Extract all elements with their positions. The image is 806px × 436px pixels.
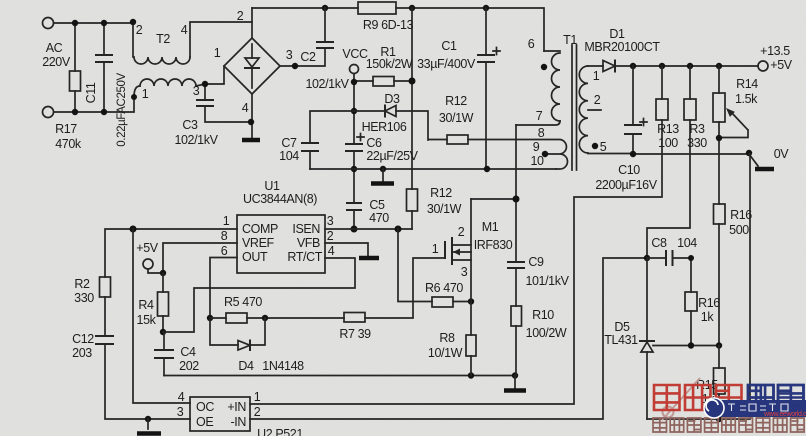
svg-text:R16: R16 xyxy=(730,208,752,222)
svg-text:220V: 220V xyxy=(42,55,71,69)
svg-text:R13: R13 xyxy=(657,122,679,136)
svg-text:1k: 1k xyxy=(701,310,715,324)
svg-text:202: 202 xyxy=(179,359,199,373)
svg-text:150k/2W: 150k/2W xyxy=(366,57,413,71)
svg-text:T1: T1 xyxy=(563,33,577,47)
svg-text:15k: 15k xyxy=(137,313,157,327)
svg-text:C2: C2 xyxy=(300,50,316,64)
svg-text:6: 6 xyxy=(528,37,535,51)
svg-text:2: 2 xyxy=(254,405,261,419)
svg-text:C8: C8 xyxy=(651,236,667,250)
svg-text:C11: C11 xyxy=(84,82,98,103)
svg-text:VFB: VFB xyxy=(297,236,320,250)
svg-text:3: 3 xyxy=(193,84,200,98)
svg-text:33µF/400V: 33µF/400V xyxy=(417,57,476,71)
svg-text:104: 104 xyxy=(279,149,299,163)
svg-text:C10: C10 xyxy=(618,163,640,177)
svg-text:1: 1 xyxy=(432,242,439,256)
svg-text:TL431: TL431 xyxy=(604,333,638,347)
svg-text:7: 7 xyxy=(536,109,543,123)
svg-text:2: 2 xyxy=(136,23,143,37)
svg-text:330: 330 xyxy=(74,291,94,305)
svg-text:470: 470 xyxy=(369,211,389,225)
svg-text:3: 3 xyxy=(461,265,468,279)
svg-text:U1: U1 xyxy=(264,179,280,193)
svg-text:R7 39: R7 39 xyxy=(339,327,371,341)
svg-text:8: 8 xyxy=(221,229,228,243)
svg-text:-IN: -IN xyxy=(231,415,247,429)
svg-text:1: 1 xyxy=(214,46,221,60)
svg-text:OC: OC xyxy=(196,400,214,414)
svg-text:D4: D4 xyxy=(238,359,254,373)
svg-text:4: 4 xyxy=(178,390,185,404)
svg-text:U2 P521: U2 P521 xyxy=(257,427,303,436)
svg-text:R12: R12 xyxy=(445,94,467,108)
svg-text:6: 6 xyxy=(221,244,228,258)
svg-text:1: 1 xyxy=(223,214,230,228)
svg-text:HER106: HER106 xyxy=(362,120,407,134)
svg-text:3: 3 xyxy=(286,48,293,62)
svg-text:500: 500 xyxy=(729,223,749,237)
svg-text:+13.5: +13.5 xyxy=(760,44,790,58)
svg-text:R5 470: R5 470 xyxy=(224,295,262,309)
svg-text:C1: C1 xyxy=(441,39,457,53)
svg-text:2: 2 xyxy=(594,93,601,107)
svg-text:101/1kV: 101/1kV xyxy=(525,274,569,288)
svg-text:R3: R3 xyxy=(689,122,705,136)
svg-text:C7: C7 xyxy=(281,136,297,150)
svg-text:0.22µFAC250V: 0.22µFAC250V xyxy=(116,73,128,147)
svg-text:2: 2 xyxy=(237,9,244,23)
svg-text:10: 10 xyxy=(530,154,544,168)
svg-text:R2: R2 xyxy=(74,277,90,291)
svg-text:5: 5 xyxy=(600,140,607,154)
svg-text:9: 9 xyxy=(533,140,540,154)
svg-text:R17: R17 xyxy=(55,122,77,136)
svg-text:C12: C12 xyxy=(72,332,94,346)
svg-text:OUT: OUT xyxy=(242,250,268,264)
svg-text:+5V: +5V xyxy=(770,58,792,72)
svg-text:8: 8 xyxy=(538,126,545,140)
svg-text:1N4148: 1N4148 xyxy=(262,359,304,373)
svg-text:VREF: VREF xyxy=(242,236,275,250)
svg-text:M1: M1 xyxy=(482,220,499,234)
svg-text:www.eeworld.com.cn: www.eeworld.com.cn xyxy=(763,411,806,418)
svg-text:2200µF16V: 2200µF16V xyxy=(595,178,657,192)
svg-text:470k: 470k xyxy=(55,137,82,151)
svg-text:2: 2 xyxy=(458,225,465,239)
svg-text:C6: C6 xyxy=(366,136,382,150)
svg-text:1.5k: 1.5k xyxy=(735,92,758,106)
svg-text:1: 1 xyxy=(142,87,149,101)
svg-text:MBR20100CT: MBR20100CT xyxy=(584,40,660,54)
svg-text:C9: C9 xyxy=(528,255,544,269)
svg-text:RT/CT: RT/CT xyxy=(287,250,322,264)
svg-text:4: 4 xyxy=(242,101,249,115)
svg-text:VCC: VCC xyxy=(342,47,368,61)
svg-text:102/1kV: 102/1kV xyxy=(174,133,218,147)
svg-text:R10: R10 xyxy=(532,308,554,322)
svg-text:D5: D5 xyxy=(614,320,630,334)
svg-text:4: 4 xyxy=(328,244,335,258)
svg-text:203: 203 xyxy=(72,346,92,360)
svg-text:R4: R4 xyxy=(138,298,154,312)
svg-text:3: 3 xyxy=(327,214,334,228)
svg-text:R8: R8 xyxy=(439,331,455,345)
svg-text:OE: OE xyxy=(196,415,213,429)
svg-text:T2: T2 xyxy=(156,32,170,46)
svg-text:1: 1 xyxy=(254,390,261,404)
svg-text:102/1kV: 102/1kV xyxy=(305,77,349,91)
svg-text:+IN: +IN xyxy=(227,400,246,414)
svg-text:D1: D1 xyxy=(609,27,625,41)
svg-text:100/2W: 100/2W xyxy=(526,326,567,340)
svg-text:4: 4 xyxy=(181,23,188,37)
svg-text:UC3844AN(8): UC3844AN(8) xyxy=(243,192,317,206)
svg-text:330: 330 xyxy=(687,136,707,150)
svg-text:C3: C3 xyxy=(182,118,198,132)
svg-text:30/1W: 30/1W xyxy=(427,202,462,216)
svg-text:D3: D3 xyxy=(384,92,400,106)
svg-text:0V: 0V xyxy=(774,147,790,161)
svg-text:10/1W: 10/1W xyxy=(428,346,463,360)
svg-text:R14: R14 xyxy=(736,77,758,91)
svg-text:3: 3 xyxy=(177,405,184,419)
svg-text:1: 1 xyxy=(593,69,600,83)
svg-text:30/1W: 30/1W xyxy=(439,111,474,125)
svg-text:+5V: +5V xyxy=(136,241,158,255)
svg-text:R16: R16 xyxy=(698,296,720,310)
svg-text:AC: AC xyxy=(46,41,63,55)
svg-text:100: 100 xyxy=(658,136,678,150)
svg-text:R9 6D-13: R9 6D-13 xyxy=(363,18,414,32)
svg-text:C5: C5 xyxy=(369,198,385,212)
svg-text:2: 2 xyxy=(327,229,334,243)
svg-text:R6 470: R6 470 xyxy=(425,281,463,295)
svg-text:C4: C4 xyxy=(180,345,196,359)
svg-text:COMP: COMP xyxy=(242,222,278,236)
svg-text:22µF/25V: 22µF/25V xyxy=(366,149,418,163)
svg-text:IRF830: IRF830 xyxy=(474,238,513,252)
svg-text:R12: R12 xyxy=(430,186,452,200)
svg-text:ISEN: ISEN xyxy=(292,222,320,236)
svg-text:104: 104 xyxy=(677,236,697,250)
